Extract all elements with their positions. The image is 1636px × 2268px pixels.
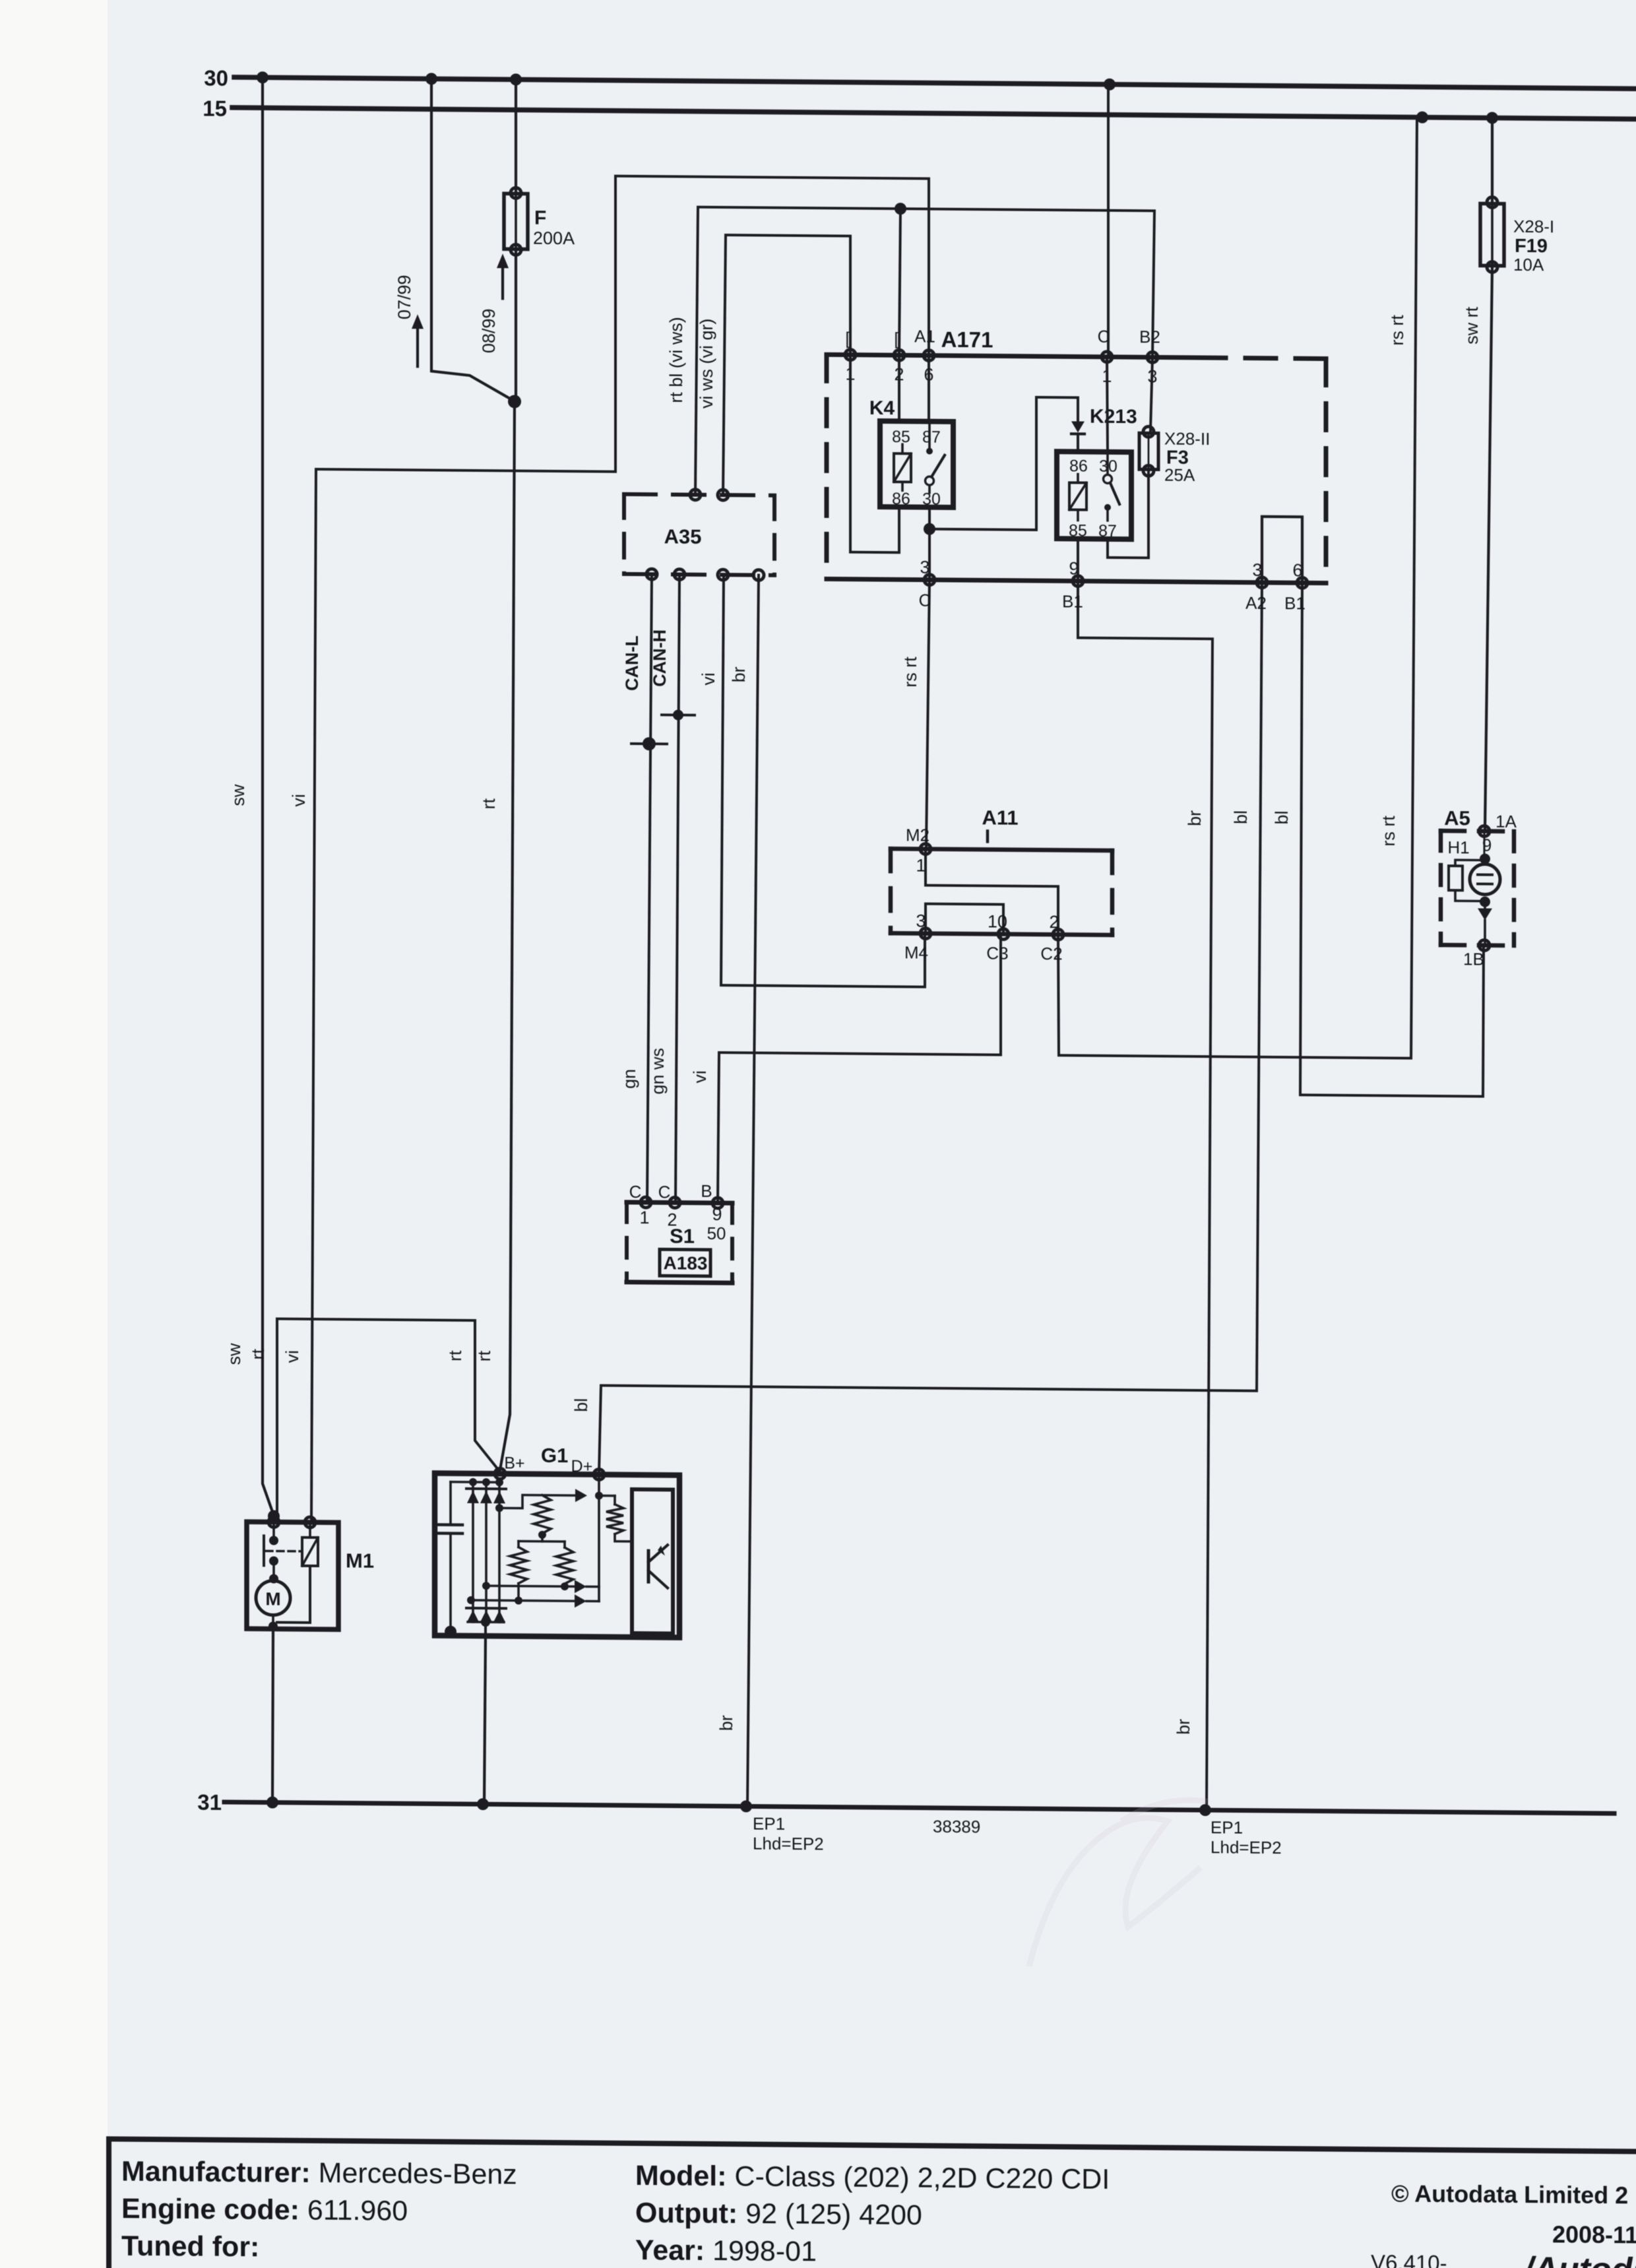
svg-text:B+: B+ [504, 1454, 524, 1472]
wire A171 pin1 to K4 86 [850, 355, 899, 553]
svg-text:/Autodata: /Autodata [1523, 2250, 1636, 2268]
junction bus30/F [510, 73, 522, 85]
svg-text:br: br [729, 666, 749, 682]
svg-text:br: br [1185, 810, 1205, 826]
wire br A35 to bus31 [747, 575, 759, 1806]
junction bus15/rs-rt [1416, 112, 1428, 123]
svg-text:A171: A171 [941, 327, 993, 352]
G1 bottom junction [468, 1621, 504, 1623]
A5 junction top [1480, 853, 1490, 864]
M1 relay coil [302, 1538, 318, 1566]
svg-text:10: 10 [988, 911, 1007, 931]
alternator G1 box [435, 1474, 679, 1638]
bus 15 (ignition +) [232, 108, 1636, 119]
A35 pin CAN-L [646, 569, 657, 579]
wire br A171 pin9 to bus31 [1078, 581, 1212, 1811]
wire rt branch horizontal [277, 1319, 475, 1320]
module A11 box [891, 849, 1112, 851]
svg-text:25A: 25A [1164, 465, 1195, 485]
relay module A171 box [827, 354, 1195, 358]
svg-text:07/99: 07/99 [394, 275, 414, 319]
wire K4 30 to A171 pin3 [928, 507, 931, 580]
junction pin2 net [895, 203, 906, 214]
wire F3 to A171 pinB2 [1150, 357, 1152, 430]
wire bus15 to fuse F19 [1491, 118, 1494, 204]
svg-text:C: C [658, 1182, 671, 1202]
svg-text:M4: M4 [904, 942, 928, 962]
wire sw bus30 to M1 [263, 77, 274, 1515]
svg-text:K4: K4 [869, 397, 895, 419]
S1 pin 1 [641, 1197, 651, 1208]
svg-text:15: 15 [203, 96, 227, 121]
ignition switch S1 box [627, 1202, 732, 1203]
svg-text:C: C [919, 591, 931, 610]
wire rt branch to G1 B+ [475, 1320, 499, 1471]
relay K213 box [1057, 451, 1131, 539]
svg-text:rt: rt [445, 1350, 465, 1361]
svg-text:Engine code: 611.960: Engine code: 611.960 [121, 2193, 408, 2227]
svg-text:30: 30 [922, 490, 941, 509]
G1 lower links and diodes [486, 1586, 575, 1586]
wire vi A171 pin6/A1 to M1 [311, 174, 929, 1525]
wire rs rt A171 pin3 to A11 pin M2 [926, 580, 929, 848]
junction bus15/F19 [1486, 112, 1498, 124]
junction bus31/br right [1199, 1804, 1211, 1816]
A171 top pins [845, 350, 856, 360]
G1 capacitor [449, 1482, 452, 1525]
svg-text:bl: bl [571, 1398, 591, 1412]
svg-text:rt bl (vi ws): rt bl (vi ws) [666, 317, 686, 403]
wire M1 to bus31 [272, 1629, 273, 1802]
svg-text:sw: sw [224, 1343, 244, 1365]
svg-text:A2: A2 [1245, 593, 1267, 613]
A171 internal bridge A2-B1 [1262, 517, 1302, 583]
svg-text:38389: 38389 [933, 1817, 980, 1837]
K4 switch contact [926, 448, 933, 455]
svg-text:C3: C3 [986, 943, 1008, 963]
K213 switch contact [1104, 474, 1112, 483]
svg-text:86: 86 [1069, 457, 1088, 475]
G1 field winding [613, 1496, 616, 1505]
svg-text:CAN-L: CAN-L [622, 635, 642, 691]
svg-text:30: 30 [204, 66, 228, 90]
svg-text:1: 1 [639, 1208, 649, 1227]
wire sw rt F19 to A5 [1485, 267, 1492, 830]
relay K4 box [880, 421, 953, 507]
svg-text:rt: rt [479, 798, 499, 809]
svg-text:vi ws (vi gr): vi ws (vi gr) [697, 319, 716, 409]
junction bus30/sw [257, 71, 268, 83]
svg-text:A11: A11 [982, 806, 1018, 829]
wire K213 85 to A171 pin9 [1077, 539, 1079, 581]
svg-text:rs rt: rs rt [1387, 315, 1407, 346]
svg-text:F19: F19 [1515, 236, 1548, 257]
junction bus30/C [1104, 79, 1116, 90]
svg-text:08/99: 08/99 [479, 308, 499, 353]
junction K4 30 [924, 523, 935, 535]
svg-text:C2: C2 [1040, 944, 1062, 963]
bus 31 (ground) [224, 1802, 1614, 1813]
svg-text:sw rt: sw rt [1462, 306, 1482, 344]
wire vi A35 to A11 pin M4 [721, 575, 925, 987]
svg-text:B1: B1 [1284, 593, 1306, 613]
K4 coil [894, 453, 911, 482]
arrow 08/99 [501, 268, 504, 298]
svg-text:10A: 10A [1513, 255, 1544, 275]
A5 lamp H1 [1484, 860, 1486, 864]
M1 coil return wire [277, 1566, 310, 1623]
M1 left pin [268, 1516, 279, 1527]
G1 stator windings R2 R3 [519, 1540, 565, 1543]
A5 bottom pin [1479, 940, 1490, 950]
A11 pin 1 M2 [920, 844, 931, 855]
svg-text:rt: rt [474, 1350, 494, 1361]
junction bus31/G1 [477, 1798, 489, 1810]
svg-text:87: 87 [1098, 522, 1117, 540]
A11 internal link 1-2 [926, 849, 1058, 935]
svg-text:A183: A183 [664, 1252, 708, 1274]
svg-text:86: 86 [892, 490, 910, 508]
fuse F 200A [504, 193, 528, 249]
A11 pin 2 [1053, 929, 1063, 940]
svg-text:D+: D+ [571, 1457, 593, 1475]
A171 bottom pins [924, 575, 935, 585]
svg-text:87: 87 [922, 428, 941, 447]
svg-text:Model: C-Class (202) 2,2D C220: Model: C-Class (202) 2,2D C220 CDI [635, 2160, 1110, 2195]
G1 D+ pin [594, 1469, 604, 1479]
svg-text:bl: bl [1231, 810, 1251, 824]
svg-text:rs rt: rs rt [1379, 816, 1399, 847]
svg-text:Tuned for:: Tuned for: [121, 2230, 259, 2263]
A5 top pin [1479, 826, 1490, 836]
fuse F19 X28-I 10A [1480, 204, 1504, 266]
diode above K213 [1071, 421, 1085, 432]
M1 right pin [305, 1517, 315, 1528]
svg-text:A1: A1 [914, 326, 935, 346]
svg-text:rs rt: rs rt [900, 657, 920, 688]
A35 pin br [753, 569, 764, 580]
svg-text:2: 2 [1049, 912, 1059, 932]
svg-text:31: 31 [197, 1790, 222, 1815]
G1 stator winding R1 [499, 1495, 575, 1508]
svg-text:Lhd=EP2: Lhd=EP2 [753, 1833, 824, 1854]
svg-text:3: 3 [916, 911, 926, 930]
svg-text:[: [ [894, 329, 899, 348]
svg-text:vi: vi [690, 1070, 710, 1084]
A11 pin 10 [998, 929, 1009, 940]
junction CAN-L [631, 742, 667, 745]
A5 diode [1484, 902, 1486, 909]
svg-text:Output: 92 (125) 4200: Output: 92 (125) 4200 [635, 2197, 922, 2232]
M1 motor symbol [256, 1580, 290, 1615]
svg-text:9: 9 [712, 1204, 722, 1224]
svg-text:Manufacturer: Mercedes-Benz: Manufacturer: Mercedes-Benz [121, 2156, 517, 2191]
wire bus30 to fuse F [515, 80, 517, 194]
svg-text:1A: 1A [1495, 812, 1517, 831]
control unit A35 box [624, 494, 774, 496]
svg-text:B: B [701, 1181, 712, 1201]
G1 rectifier diodes top row [472, 1482, 474, 1622]
wire A171 pin2 stub [899, 209, 900, 355]
data table border [109, 2139, 1636, 2151]
A35 pin CAN-H [674, 569, 685, 579]
svg-text:[: [ [845, 329, 850, 348]
A5 junction bottom [1480, 896, 1490, 907]
svg-text:50: 50 [707, 1223, 726, 1243]
svg-text:G1: G1 [541, 1444, 568, 1467]
svg-text:B1: B1 [1062, 591, 1083, 611]
starter motor M1 box [247, 1522, 338, 1629]
G1 rectifier diodes bottom row [466, 1607, 480, 1609]
svg-text:Lhd=EP2: Lhd=EP2 [1211, 1837, 1282, 1858]
svg-text:EP1: EP1 [753, 1813, 785, 1833]
svg-text:M1: M1 [346, 1549, 374, 1572]
wire K4 30 to K213 diode [929, 397, 1078, 531]
wire bl A171 pinB1 to A5 1B [1300, 583, 1484, 1096]
svg-text:M: M [265, 1588, 280, 1609]
junction rt [508, 395, 521, 408]
junction bus30/07-99 [425, 73, 437, 84]
G1 internal bus [451, 1481, 500, 1483]
svg-text:gn ws: gn ws [648, 1048, 668, 1095]
bus 30 (battery +) [234, 77, 1636, 88]
wire rt junction to G1 B+ [500, 401, 515, 1470]
wire bl A171 pinA2 to G1 D+ [599, 577, 1262, 1479]
wire K213 87 to fuse F3 [1108, 472, 1148, 558]
svg-text:H1: H1 [1447, 837, 1469, 857]
wire 07/99 variant [431, 79, 514, 401]
faint bleed-through marks [1029, 1800, 1207, 1966]
G1 regulator box [632, 1489, 673, 1634]
svg-text:br: br [716, 1715, 736, 1731]
svg-text:vi: vi [282, 1350, 302, 1363]
svg-text:sw: sw [228, 784, 248, 806]
S1 pin 2 [670, 1197, 680, 1208]
svg-text:X28-II: X28-II [1164, 429, 1210, 449]
svg-text:S1: S1 [670, 1224, 695, 1247]
svg-text:F: F [534, 207, 546, 229]
wire G1 to bus31 [484, 1636, 486, 1804]
svg-text:gn: gn [619, 1069, 639, 1089]
wire A171 pin2 to K4 85 [898, 355, 900, 421]
svg-text:M2: M2 [906, 825, 929, 845]
junction bus31/M1 [267, 1796, 278, 1808]
A11 tick mark [986, 831, 990, 841]
A5 resistor branch [1455, 860, 1485, 866]
G1 B+ pin [495, 1468, 505, 1479]
fuse F3 X28-II 25A [1139, 433, 1158, 469]
A35 top pin left [690, 490, 701, 500]
svg-text:K213: K213 [1090, 406, 1137, 428]
wire fuse F to junction rt [515, 251, 517, 401]
A5 pin wire [1484, 831, 1486, 858]
svg-text:2008-11: 2008-11 [1552, 2220, 1636, 2248]
instrument cluster A5 box [1441, 829, 1514, 833]
wire CAN-H gn ws to S1 pin2 [676, 575, 679, 1202]
svg-text:85: 85 [892, 428, 910, 446]
wire C bus30 to A171 pin C [1107, 84, 1110, 357]
junction sw/rt at M1 [268, 1510, 280, 1522]
G1 D+ internal line and diode [598, 1475, 600, 1602]
wire B2 net A171 to A35 [695, 207, 1154, 499]
arrow 07/99 [416, 329, 419, 366]
A11 internal bridge 3-10 [926, 904, 1003, 934]
M1 solenoid switch [272, 1522, 275, 1538]
svg-text:V6.410-: V6.410- [1371, 2250, 1447, 2268]
svg-text:vi: vi [289, 794, 309, 807]
svg-text:A35: A35 [664, 525, 702, 548]
wire rt branch to M1 [276, 1319, 278, 1516]
A35 top pin right [718, 490, 728, 500]
svg-text:1B: 1B [1463, 949, 1484, 969]
wire vi S1 pin9 to A11 pin C3 [718, 933, 1001, 1204]
svg-text:B2: B2 [1139, 327, 1160, 346]
wire A171 pin6 to K4 87 [928, 356, 930, 422]
svg-text:Year: 1998-01: Year: 1998-01 [635, 2234, 817, 2267]
svg-text:rt: rt [248, 1348, 268, 1359]
svg-text:X28-I: X28-I [1513, 216, 1554, 237]
wire A35 to A171 pin1 [723, 235, 850, 496]
junction CAN-H [662, 713, 695, 716]
svg-text:bl: bl [1272, 810, 1292, 824]
svg-text:C: C [1098, 327, 1110, 346]
K213 coil [1069, 482, 1086, 509]
svg-text:© Autodata Limited 2: © Autodata Limited 2 [1391, 2180, 1628, 2209]
svg-text:CAN-H: CAN-H [650, 630, 670, 687]
svg-text:EP1: EP1 [1211, 1817, 1243, 1837]
wire rs rt A11 pin C2 to bus15 [1058, 114, 1417, 1058]
svg-text:200A: 200A [533, 228, 575, 249]
A35 pin vi [718, 569, 728, 580]
svg-text:vi: vi [699, 672, 718, 686]
S1 pin 9 [712, 1198, 723, 1208]
wire A171 pinC to K213 30 [1107, 357, 1108, 452]
G1 regulator transistor [647, 1551, 650, 1582]
A183 label box [660, 1249, 710, 1276]
wire CAN-L gn to S1 pin1 [647, 574, 652, 1201]
A11 pin 3 [920, 928, 931, 939]
svg-text:br: br [1174, 1719, 1193, 1735]
svg-text:A5: A5 [1444, 806, 1470, 829]
svg-text:C: C [629, 1182, 642, 1202]
junction bus31/br left [740, 1800, 752, 1812]
svg-text:85: 85 [1069, 521, 1087, 540]
